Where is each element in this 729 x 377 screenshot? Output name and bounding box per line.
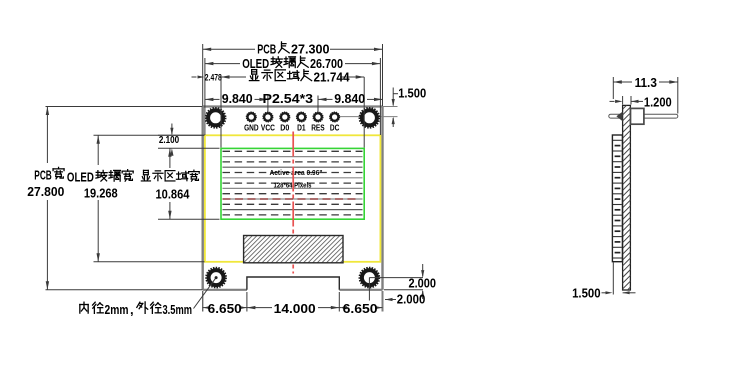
pin label VCC [261, 124, 275, 133]
side view pin housing [631, 108, 644, 124]
svg-text:Active area 0.96": Active area 0.96" [270, 168, 323, 177]
svg-text:D1: D1 [297, 124, 306, 133]
bottom dimension extension lines [203, 291, 383, 312]
svg-text:OLED: OLED [67, 170, 94, 185]
dimension text OLED glass width [67, 170, 133, 201]
leader line to bottom-left hole [194, 276, 218, 308]
mounting hole top-left [206, 108, 226, 128]
PCB board outline (front view) [203, 107, 383, 290]
pin hole GND [246, 112, 256, 122]
dimension 1.500 - extension lines [383, 106, 398, 108]
display active area outline (green) [221, 148, 364, 219]
dimension OLED glass length 26.700 - dim line [205, 62, 381, 65]
svg-text:RES: RES [311, 124, 325, 133]
dimension 9.840 left - dim line [205, 98, 268, 101]
dimension PCB length 27.300 - extension lines [203, 44, 383, 106]
dimension PCB length 27.300 - dim line [203, 48, 383, 51]
svg-text:6.650: 6.650 [343, 301, 378, 316]
pin label D0 [280, 124, 289, 133]
pin label DC [330, 124, 340, 133]
dimension display area length 21.744 - extension lines [221, 77, 364, 148]
dimension OLED glass length 26.700 - extension lines [205, 58, 381, 135]
pin label GND [244, 124, 259, 133]
dimension OLED glass width 19.268 - extension lines [94, 135, 205, 261]
mounting hole top-right [360, 108, 380, 128]
svg-text:2.478: 2.478 [205, 73, 222, 84]
mounting hole bottom-right [360, 268, 380, 288]
svg-text:DC: DC [330, 124, 340, 133]
PCB bottom edge notch [247, 277, 339, 290]
dimension 9.840 right - extension line RES [317, 96, 319, 113]
svg-text:PCB: PCB [257, 42, 276, 57]
dimension display area length 21.744 - dim line [221, 75, 364, 78]
dimension 1.200 - arrows and leader [610, 100, 644, 103]
svg-text:14.000: 14.000 [274, 301, 316, 316]
svg-text:2.100: 2.100 [159, 134, 179, 146]
dimension PCB width 27.800 - dim line [46, 107, 49, 290]
dimension 14.000 [247, 301, 339, 316]
dimension text PCB width [27, 167, 64, 199]
side view solder wedge [616, 112, 622, 122]
pin label D1 [297, 124, 306, 133]
svg-text:2.000: 2.000 [409, 275, 437, 290]
svg-text:9.840: 9.840 [334, 91, 365, 106]
dimension 2.000 hole-to-edge [409, 264, 437, 299]
svg-text:P2.54*3: P2.54*3 [263, 91, 314, 106]
dimension text display area length 21.744 [249, 69, 350, 84]
dimension 2.478 - leader and arrows [192, 76, 205, 79]
dimension 2.100 - extension line at glass top [158, 134, 205, 136]
dimension text PCB length 27.300 [257, 42, 329, 57]
side view PCB bar [623, 105, 631, 290]
dimension 2.000 notch leader [385, 292, 425, 307]
svg-text:PCB: PCB [34, 167, 52, 182]
label Active area 0.96" [270, 168, 323, 177]
dimension 2.100 - arrows [170, 124, 173, 156]
FPC connector hatched area [216, 235, 400, 263]
svg-text:1.200: 1.200 [644, 95, 672, 110]
side view OLED glass stack [612, 135, 622, 262]
svg-text:10.864: 10.864 [156, 186, 191, 201]
dimension text 11.3 [635, 75, 657, 90]
dimension 6.650 right [339, 301, 382, 316]
red center row (dark red dashed) [223, 198, 361, 200]
svg-text:2mm: 2mm [105, 302, 129, 317]
dimension 11.3 - dim line [613, 80, 678, 83]
side view PCB bar hatch [621, 93, 633, 296]
dimension 9.840 left - extension line VCC [267, 96, 269, 113]
dimension display area width 10.864 - extension lines [158, 148, 220, 219]
svg-text:GND: GND [244, 124, 259, 133]
svg-text:D0: D0 [280, 124, 289, 133]
dimension 1.500 - arrows [602, 291, 636, 294]
dimension 1.500 - extension line [612, 263, 614, 295]
dimension 1.200 - extension lines [623, 96, 631, 105]
svg-text:OLED: OLED [242, 56, 269, 71]
dimension text P2.54*3 [263, 91, 314, 106]
pin row guide line [340, 116, 398, 118]
PCB bottom extension line right [384, 289, 423, 291]
svg-text:19.268: 19.268 [84, 186, 118, 201]
pin hole DC [330, 112, 340, 122]
mounting hole bottom-left [206, 268, 226, 288]
pin hole D1 [296, 112, 306, 122]
pin hole D0 [280, 112, 290, 122]
pin label RES [311, 124, 325, 133]
svg-text:3.5mm: 3.5mm [163, 302, 193, 317]
dimension 6.650 left [203, 301, 247, 316]
dimension 11.3 - extension lines [613, 77, 678, 114]
hole center extension line right [369, 277, 423, 279]
dimension 9.840 right - dim line [318, 98, 383, 101]
text inner dia 2mm outer dia 3.5mm [80, 302, 192, 317]
dimension text 1.200 [644, 95, 672, 110]
dimension text 9.840 left [222, 91, 253, 106]
pin hole VCC [263, 112, 273, 122]
dimension text OLED glass length 26.700 [242, 56, 343, 71]
svg-text:21.744: 21.744 [314, 69, 351, 84]
svg-text:2.000: 2.000 [397, 292, 426, 307]
svg-text:1.500: 1.500 [572, 285, 601, 300]
dimension text 9.840 right [334, 91, 365, 106]
svg-text:1.500: 1.500 [398, 85, 426, 100]
svg-text:,: , [130, 302, 134, 317]
svg-text:27.800: 27.800 [27, 184, 64, 199]
svg-text:9.840: 9.840 [222, 91, 253, 106]
display pixel row lines [223, 151, 363, 215]
dimension text 1.500 top [398, 85, 426, 100]
side view header pin [609, 114, 678, 118]
label 128*64 Pixels [274, 180, 312, 189]
dimension text 1.500 side [572, 285, 601, 300]
dimension PCB width 27.800 - extension lines [46, 107, 203, 290]
dimension text display area width [141, 170, 199, 201]
red vertical centerline [292, 132, 294, 274]
dimension text 2.478 [205, 73, 222, 84]
dimension 1.500 - arrows and leader [392, 88, 398, 128]
svg-text:11.3: 11.3 [635, 75, 657, 90]
hole center mark bottom-right [368, 278, 370, 301]
OLED glass outline (yellow) [205, 135, 381, 261]
dimension display area width 10.864 - dim line [168, 148, 171, 219]
pin hole RES [313, 112, 323, 122]
svg-text:27.300: 27.300 [291, 42, 330, 57]
dimension OLED glass width 19.268 - dim line [97, 135, 100, 261]
dimension text 2.100 [159, 134, 179, 146]
svg-text:VCC: VCC [261, 124, 275, 133]
svg-text:6.650: 6.650 [208, 301, 242, 316]
